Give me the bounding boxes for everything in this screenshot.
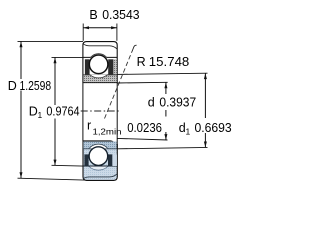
svg-text:0.6693: 0.6693 bbox=[195, 120, 232, 135]
svg-text:1: 1 bbox=[186, 127, 191, 137]
svg-text:1,2min: 1,2min bbox=[93, 127, 122, 137]
svg-text:D: D bbox=[8, 79, 17, 93]
svg-text:0.3937: 0.3937 bbox=[159, 95, 196, 110]
svg-text:1: 1 bbox=[38, 110, 43, 120]
svg-text:0.3543: 0.3543 bbox=[102, 7, 139, 22]
svg-text:1.2598: 1.2598 bbox=[20, 78, 52, 93]
svg-text:D: D bbox=[29, 105, 38, 119]
svg-text:r: r bbox=[87, 118, 91, 132]
svg-text:0.0236: 0.0236 bbox=[127, 120, 162, 135]
svg-text:15.748: 15.748 bbox=[149, 54, 190, 69]
svg-text:d: d bbox=[148, 96, 155, 110]
svg-text:B: B bbox=[89, 8, 97, 22]
svg-text:0.9764: 0.9764 bbox=[46, 104, 79, 119]
svg-text:R: R bbox=[137, 55, 146, 69]
